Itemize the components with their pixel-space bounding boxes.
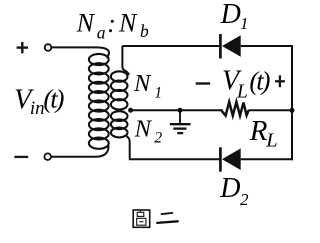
- bottom wire secondary to D2: [129, 158, 219, 160]
- resistor RL zigzag: [221, 102, 248, 116]
- svg-text:N: N: [118, 9, 138, 38]
- terminal minus sign: [14, 156, 28, 158]
- VL plus sign: [275, 75, 285, 87]
- svg-text:(t): (t): [43, 84, 64, 114]
- svg-text::: :: [107, 9, 116, 38]
- center tap node dot: [128, 108, 133, 113]
- caption glyph tu (figure): [133, 210, 150, 228]
- diode D1 cathode bar: [219, 34, 222, 58]
- diode D2 cathode bar: [219, 147, 222, 171]
- caption glyph er (two): [157, 213, 178, 223]
- svg-text:2: 2: [240, 190, 249, 209]
- secondary top lead wire: [122, 46, 129, 75]
- top wire D1 to right rail: [241, 45, 293, 47]
- right rail: [291, 45, 293, 160]
- svg-text:2: 2: [154, 130, 162, 147]
- ground junction dot: [178, 108, 183, 113]
- svg-text:1: 1: [154, 85, 162, 102]
- VL minus sign: [196, 82, 211, 84]
- wire top-left with primary top hook: [51, 47, 109, 57]
- terminal plus sign: [17, 42, 28, 53]
- diode D1 triangle: [222, 35, 241, 57]
- svg-text:D: D: [220, 0, 241, 30]
- svg-text:L: L: [265, 130, 277, 152]
- diode D2 triangle: [222, 148, 241, 170]
- svg-text:D: D: [219, 173, 240, 204]
- transformer primary winding Na: [89, 54, 109, 149]
- svg-text:1: 1: [240, 14, 249, 33]
- wire bottom-left with primary bottom hook: [51, 146, 108, 157]
- svg-text:(t): (t): [249, 66, 270, 96]
- secondary bottom lead wire: [127, 136, 130, 158]
- right rail junction dot: [290, 108, 295, 113]
- wire resistor to right rail: [248, 109, 292, 111]
- svg-text:R: R: [249, 115, 268, 147]
- transformer secondary winding N2: [111, 111, 128, 137]
- svg-text:N: N: [134, 115, 153, 142]
- svg-text:N: N: [133, 70, 152, 97]
- svg-text:a: a: [97, 22, 106, 42]
- svg-text:N: N: [76, 9, 96, 38]
- center tap wire to ground: [131, 109, 223, 111]
- bottom wire D2 to right rail: [241, 158, 293, 160]
- transformer secondary winding N1: [111, 71, 128, 109]
- svg-text:b: b: [140, 21, 149, 41]
- svg-text:L: L: [236, 81, 248, 102]
- top wire secondary to D1: [122, 45, 219, 47]
- ground symbol: [170, 110, 191, 133]
- input terminal circle bottom: [44, 153, 51, 160]
- input terminal circle top: [45, 44, 52, 51]
